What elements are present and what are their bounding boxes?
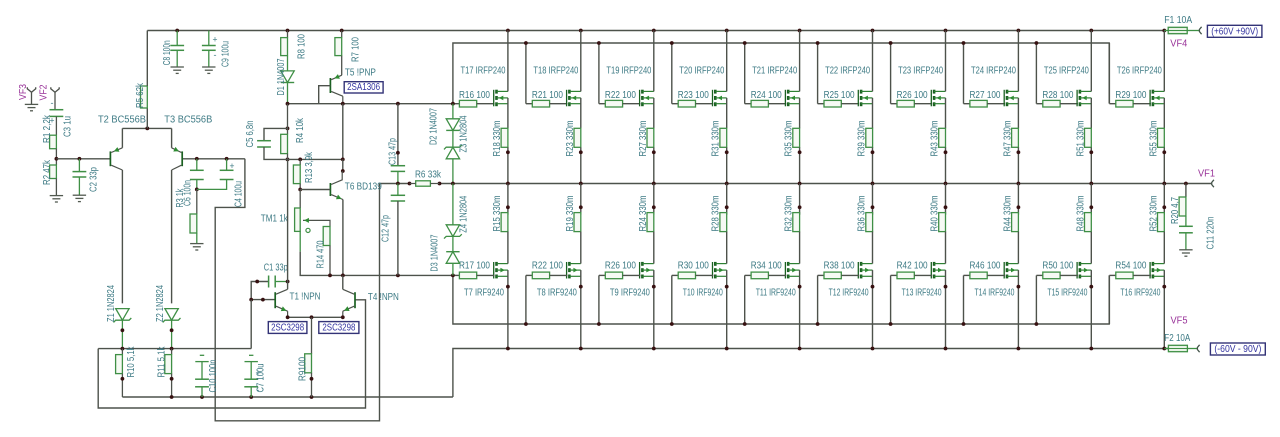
svg-text:R38 100: R38 100 xyxy=(824,260,855,271)
svg-text:T26 IRFP240: T26 IRFP240 xyxy=(1117,66,1162,77)
svg-text:D1 1N4007: D1 1N4007 xyxy=(276,58,287,95)
svg-text:R30 100: R30 100 xyxy=(678,260,709,271)
svg-text:Z2 1N2824: Z2 1N2824 xyxy=(155,285,166,322)
svg-text:C9 100u: C9 100u xyxy=(221,41,232,67)
svg-text:R29 100: R29 100 xyxy=(1115,90,1146,101)
svg-text:+: + xyxy=(213,35,218,45)
svg-text:T4 !NPN: T4 !NPN xyxy=(368,292,399,303)
svg-text:R26 100: R26 100 xyxy=(897,90,928,101)
svg-text:C10 100n: C10 100n xyxy=(208,360,219,393)
svg-text:T5 !PNP: T5 !PNP xyxy=(345,67,376,78)
svg-text:R46 100: R46 100 xyxy=(970,260,1001,271)
svg-text:R5 62k: R5 62k xyxy=(135,82,146,108)
svg-text:R32 330m: R32 330m xyxy=(784,196,795,232)
svg-text:VF2: VF2 xyxy=(39,84,50,100)
svg-text:T11 IRF9240: T11 IRF9240 xyxy=(756,288,796,299)
svg-text:R31 330m: R31 330m xyxy=(711,121,722,157)
svg-text:TM1 1k: TM1 1k xyxy=(261,214,289,225)
svg-text:T20 IRFP240: T20 IRFP240 xyxy=(679,66,724,77)
svg-text:VF4: VF4 xyxy=(1170,39,1187,50)
svg-text:R28 100: R28 100 xyxy=(1042,90,1073,101)
svg-text:R22 100: R22 100 xyxy=(532,260,563,271)
svg-text:C5 6,8n: C5 6,8n xyxy=(245,121,256,148)
svg-text:R9100: R9100 xyxy=(298,357,309,381)
svg-text:R11 5,1k: R11 5,1k xyxy=(157,346,168,378)
svg-text:VF3: VF3 xyxy=(18,84,29,100)
svg-text:R40 330m: R40 330m xyxy=(930,196,941,232)
svg-text:F1 10A: F1 10A xyxy=(1164,15,1192,26)
svg-text:D3 1N4007: D3 1N4007 xyxy=(429,234,440,271)
svg-text:C3 1u: C3 1u xyxy=(63,116,74,137)
svg-text:T21 IRFP240: T21 IRFP240 xyxy=(752,66,797,77)
svg-text:-: - xyxy=(51,98,54,108)
svg-text:T6 BD139: T6 BD139 xyxy=(345,181,382,192)
svg-text:R51 330m: R51 330m xyxy=(1075,121,1086,157)
svg-text:R44 330m: R44 330m xyxy=(1002,196,1013,232)
svg-text:C2 33p: C2 33p xyxy=(89,167,100,192)
svg-text:T8 IRF9240: T8 IRF9240 xyxy=(537,288,577,299)
svg-text:C4 100u: C4 100u xyxy=(234,181,245,207)
svg-text:R34 100: R34 100 xyxy=(751,260,782,271)
svg-text:C8 100n: C8 100n xyxy=(162,40,173,65)
svg-text:T7 IRF9240: T7 IRF9240 xyxy=(464,288,504,299)
svg-text:T23 IRFP240: T23 IRFP240 xyxy=(898,66,943,77)
svg-text:T16 IRF9240: T16 IRF9240 xyxy=(1120,288,1160,299)
svg-text:R22 100: R22 100 xyxy=(605,90,636,101)
svg-text:VF1: VF1 xyxy=(1198,169,1215,180)
svg-text:2SC3298: 2SC3298 xyxy=(322,323,355,334)
svg-text:R19 330m: R19 330m xyxy=(565,196,576,232)
svg-text:T3 BC556B: T3 BC556B xyxy=(164,115,212,126)
svg-text:R48 330m: R48 330m xyxy=(1075,196,1086,232)
svg-text:T15 IRF9240: T15 IRF9240 xyxy=(1047,288,1087,299)
svg-text:R24 330m: R24 330m xyxy=(638,196,649,232)
svg-text:R4 10k: R4 10k xyxy=(295,117,306,143)
svg-text:2SA1306: 2SA1306 xyxy=(347,82,380,93)
svg-text:C1 33p: C1 33p xyxy=(264,263,288,274)
svg-text:R6 33k: R6 33k xyxy=(415,170,442,181)
svg-text:R36 330m: R36 330m xyxy=(857,196,868,232)
svg-text:R2 47k: R2 47k xyxy=(42,159,53,185)
svg-text:VF5: VF5 xyxy=(1171,316,1188,327)
svg-text:T17 IRFP240: T17 IRFP240 xyxy=(461,66,506,77)
svg-text:C13 47p: C13 47p xyxy=(387,138,398,165)
svg-text:R24 100: R24 100 xyxy=(751,90,782,101)
svg-text:T24 IRFP240: T24 IRFP240 xyxy=(971,66,1016,77)
svg-text:R55 330m: R55 330m xyxy=(1148,121,1159,157)
svg-text:T12 IRF9240: T12 IRF9240 xyxy=(829,288,869,299)
svg-text:D2 1N4007: D2 1N4007 xyxy=(429,108,440,145)
svg-text:R50 100: R50 100 xyxy=(1042,260,1073,271)
svg-text:R18 330m: R18 330m xyxy=(492,121,503,157)
svg-text:T22 IRFP240: T22 IRFP240 xyxy=(825,66,870,77)
svg-text:T2 BC556B: T2 BC556B xyxy=(98,115,146,126)
svg-text:C11 220n: C11 220n xyxy=(1206,217,1217,250)
svg-text:R16 100: R16 100 xyxy=(459,90,490,101)
svg-text:2SC3298: 2SC3298 xyxy=(271,323,304,334)
svg-text:R25 100: R25 100 xyxy=(824,90,855,101)
svg-text:R14 470: R14 470 xyxy=(316,240,327,268)
svg-text:(+60V +90V): (+60V +90V) xyxy=(1211,27,1258,38)
svg-text:R17 100: R17 100 xyxy=(459,260,490,271)
svg-text:-: - xyxy=(214,50,217,60)
svg-text:R39 330m: R39 330m xyxy=(857,121,868,157)
svg-text:T14 IRF9240: T14 IRF9240 xyxy=(975,288,1015,299)
svg-text:R23 100: R23 100 xyxy=(678,90,709,101)
svg-text:R21 100: R21 100 xyxy=(532,90,563,101)
svg-text:R10 5,1k: R10 5,1k xyxy=(126,346,137,378)
svg-text:R27 330m: R27 330m xyxy=(638,121,649,157)
svg-text:Z3 1N2804: Z3 1N2804 xyxy=(458,115,469,152)
svg-text:R42 100: R42 100 xyxy=(897,260,928,271)
svg-text:R13 3,9k: R13 3,9k xyxy=(304,151,315,183)
svg-text:Z1 1N2824: Z1 1N2824 xyxy=(106,285,117,322)
svg-text:R8 100: R8 100 xyxy=(297,34,308,59)
svg-text:R27 100: R27 100 xyxy=(970,90,1001,101)
svg-text:T18 IRFP240: T18 IRFP240 xyxy=(533,66,578,77)
svg-text:T10 IRF9240: T10 IRF9240 xyxy=(683,288,723,299)
svg-text:F2 10A: F2 10A xyxy=(1164,333,1190,344)
svg-text:R35 330m: R35 330m xyxy=(784,121,795,157)
svg-text:R28 330m: R28 330m xyxy=(711,196,722,232)
svg-text:Z4 1N2804: Z4 1N2804 xyxy=(458,195,469,232)
svg-text:R54 100: R54 100 xyxy=(1115,260,1146,271)
svg-text:R52 330m: R52 330m xyxy=(1148,196,1159,232)
svg-text:T1 !NPN: T1 !NPN xyxy=(290,291,321,302)
svg-text:T19 IRFP240: T19 IRFP240 xyxy=(606,66,651,77)
svg-text:C7 100u: C7 100u xyxy=(256,364,267,393)
svg-text:T13 IRF9240: T13 IRF9240 xyxy=(902,288,942,299)
svg-text:R7 100: R7 100 xyxy=(351,37,362,62)
svg-text:C12 47p: C12 47p xyxy=(381,215,392,242)
svg-text:R15 330m: R15 330m xyxy=(492,196,503,232)
svg-text:T25 IRFP240: T25 IRFP240 xyxy=(1044,66,1089,77)
svg-text:R23 330m: R23 330m xyxy=(565,121,576,157)
svg-text:R1 2,2k: R1 2,2k xyxy=(42,114,53,143)
svg-text:R3 1k: R3 1k xyxy=(175,188,186,208)
svg-text:R47 330m: R47 330m xyxy=(1002,121,1013,157)
svg-text:T9 IRF9240: T9 IRF9240 xyxy=(610,288,650,299)
svg-text:(-60V - 90V): (-60V - 90V) xyxy=(1214,344,1261,355)
svg-text:R20 4,7: R20 4,7 xyxy=(1170,197,1181,224)
svg-text:R26 100: R26 100 xyxy=(605,260,636,271)
svg-text:+: + xyxy=(230,161,235,171)
svg-text:R43 330m: R43 330m xyxy=(930,121,941,157)
